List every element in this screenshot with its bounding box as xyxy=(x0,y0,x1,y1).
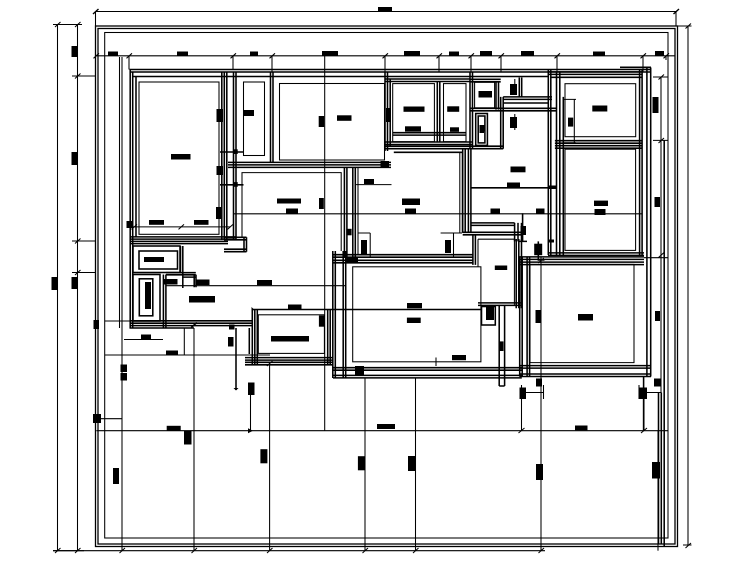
bottom-right room left wall xyxy=(520,257,530,377)
RC2 bottom wall xyxy=(548,253,644,256)
interior dimension line left-middle xyxy=(164,279,347,286)
grid line G xyxy=(540,257,542,551)
RC2 inner line xyxy=(565,149,636,250)
room F inner dim xyxy=(356,184,392,186)
big room label xyxy=(407,318,421,323)
bottom-right room inner line xyxy=(530,264,634,362)
interior dimension line middle xyxy=(233,209,642,214)
kitchen small marks xyxy=(534,244,542,256)
bath inner line xyxy=(478,239,514,305)
room E left wall xyxy=(234,162,237,239)
door glyph right of room F xyxy=(445,240,451,253)
RC2 labels xyxy=(594,201,608,206)
wall tick blobs right column xyxy=(549,186,556,190)
washroom bottom wall xyxy=(471,223,515,226)
wall right of room1 xyxy=(222,72,225,240)
small box below bath xyxy=(482,307,496,326)
grid dim blob middle xyxy=(319,198,324,209)
room E labels xyxy=(277,199,301,204)
room B top line xyxy=(252,309,481,311)
hall left wall xyxy=(501,97,504,149)
big room left wall xyxy=(333,251,346,378)
left lower dimension lines xyxy=(94,320,271,381)
bath top wall xyxy=(463,232,522,235)
room5 labels xyxy=(447,106,459,112)
left wall window mark xyxy=(127,221,133,228)
right column top wall xyxy=(548,72,642,77)
misc bottom blobs xyxy=(184,431,192,445)
grid line B xyxy=(193,328,195,551)
wall between room E and room F xyxy=(344,167,355,257)
wall between room3 and room4 xyxy=(385,72,390,151)
room6 label xyxy=(479,91,493,98)
hall bottom line xyxy=(471,187,554,189)
room1 bottom wall xyxy=(130,237,236,244)
room4/5 interior divider xyxy=(393,133,466,135)
room5 inner line xyxy=(444,84,467,142)
closet1 label xyxy=(144,257,164,262)
big room dim text above line xyxy=(407,303,422,308)
room F labels xyxy=(402,199,420,206)
wall end block xyxy=(347,257,359,264)
top dimension chain with ticks xyxy=(94,51,676,72)
room4/5 top band xyxy=(385,79,470,82)
big room door mark xyxy=(361,240,367,254)
room2 label xyxy=(244,110,254,116)
room1 door marks xyxy=(217,109,224,122)
bath left wall xyxy=(473,235,476,265)
washroom wall top blob xyxy=(521,226,527,235)
room B left wall xyxy=(252,310,257,365)
room E inner line xyxy=(242,173,341,251)
room B right wall xyxy=(328,310,331,365)
RC1 dim mark xyxy=(564,99,576,143)
closet2 label xyxy=(145,282,151,309)
big room bottom wall xyxy=(333,368,522,378)
hall top wall xyxy=(503,97,552,100)
room1 inner line xyxy=(139,82,219,234)
bottom right small dimension lines xyxy=(519,379,662,434)
grid line E xyxy=(364,378,366,551)
room1 interior dim line xyxy=(131,226,231,228)
grid line F xyxy=(415,378,417,551)
room1 bottom dim texts xyxy=(149,220,164,225)
overall right dimension line xyxy=(674,24,692,549)
overall left dimension line xyxy=(52,22,85,553)
drawing frame inner border xyxy=(105,33,668,539)
bath right wall xyxy=(516,239,521,308)
WALLS xyxy=(130,67,665,546)
door dim lines xyxy=(358,233,462,257)
shaft below bath xyxy=(499,305,504,386)
wall between room5 and room6 xyxy=(470,72,473,149)
hall west stub wall xyxy=(519,78,521,97)
room2 inner line xyxy=(244,82,265,156)
terrace dim vertical xyxy=(235,328,237,390)
wall between room4 and room5 xyxy=(437,82,440,142)
bottom-right room label xyxy=(578,314,593,321)
grid B slash xyxy=(191,323,197,328)
blob on bottom wall xyxy=(355,366,364,375)
closet1 side wall xyxy=(181,246,183,288)
right inner vertical dimension chain xyxy=(644,75,668,393)
room B labels xyxy=(271,336,309,342)
bath label xyxy=(495,266,507,271)
wall left of room2 xyxy=(227,72,236,240)
big room top wall xyxy=(333,255,473,263)
room5 right mark xyxy=(480,125,485,133)
room B side mark xyxy=(319,316,325,327)
closet label xyxy=(480,125,485,132)
corridor top wall xyxy=(385,146,503,152)
terrace wall bottom-left xyxy=(130,321,253,328)
terrace wall blob xyxy=(229,325,235,330)
grid line H xyxy=(657,431,659,551)
grid line A (left eaves) xyxy=(120,57,123,551)
closet below room6 xyxy=(476,114,488,146)
room2/3 bottom wall xyxy=(228,162,391,167)
big room inner line xyxy=(353,267,481,362)
top exterior wall xyxy=(130,67,652,76)
dimension ticks on room1 right wall xyxy=(220,152,244,185)
room3 label xyxy=(337,115,352,121)
bottom-right room top wall xyxy=(520,257,645,265)
bath bottom wall xyxy=(478,303,522,306)
wall between room2 and room3 xyxy=(271,72,274,162)
hall labels xyxy=(511,167,526,173)
room4 labels xyxy=(404,107,425,112)
corridor dim arrows xyxy=(514,79,516,95)
room6 top and right wall xyxy=(470,79,501,109)
bottom dimension line xyxy=(53,548,545,553)
overall top dimension line xyxy=(93,7,679,26)
right column right wall xyxy=(640,70,643,256)
room4 inner line xyxy=(393,84,435,142)
room F door mark xyxy=(346,229,351,236)
room1 label xyxy=(171,154,191,160)
wall between RC1 and RC2 xyxy=(555,141,642,149)
room B inner line xyxy=(258,315,324,354)
room3 inner line xyxy=(280,84,385,161)
RC1 inner line xyxy=(565,84,636,137)
left exterior wall xyxy=(130,70,136,329)
room5 bottom wall xyxy=(385,142,473,145)
washroom side walls xyxy=(463,149,471,233)
grid line C xyxy=(269,363,271,551)
closet2 walls xyxy=(133,275,166,329)
bottom-right room bottom wall xyxy=(520,366,652,377)
right eaves lines xyxy=(644,68,665,547)
right column left wall xyxy=(557,72,564,255)
top-right interior corner wall xyxy=(548,70,551,256)
washroom right wall xyxy=(515,223,522,242)
room3 door mark xyxy=(386,108,391,122)
room B bottom wall xyxy=(245,358,333,365)
RC1 label xyxy=(592,106,607,112)
grid line D (long center) xyxy=(324,56,326,431)
kitchen small dim xyxy=(519,213,545,260)
terrace step wall xyxy=(248,328,250,354)
washroom side marks xyxy=(536,310,542,323)
closet1 walls xyxy=(133,246,180,273)
shaft mark xyxy=(499,341,504,351)
long horizontal terrace line xyxy=(96,430,668,432)
left dimension chain xyxy=(72,22,97,553)
left area vertical blobs xyxy=(228,337,234,347)
hall label near closets xyxy=(189,296,215,303)
room E bottom-left corner block xyxy=(224,237,247,251)
short vertical with arrow ending at terrace line xyxy=(93,393,395,433)
entrance step walls xyxy=(166,273,196,288)
hall inner line xyxy=(503,102,549,104)
bath corner mark xyxy=(486,307,494,320)
room6 bottom wall xyxy=(470,108,557,111)
big room inner dim text xyxy=(452,355,466,360)
room6 inner line xyxy=(475,82,495,108)
room F inner lines xyxy=(358,152,462,254)
drawing frame outer double border xyxy=(96,26,678,547)
